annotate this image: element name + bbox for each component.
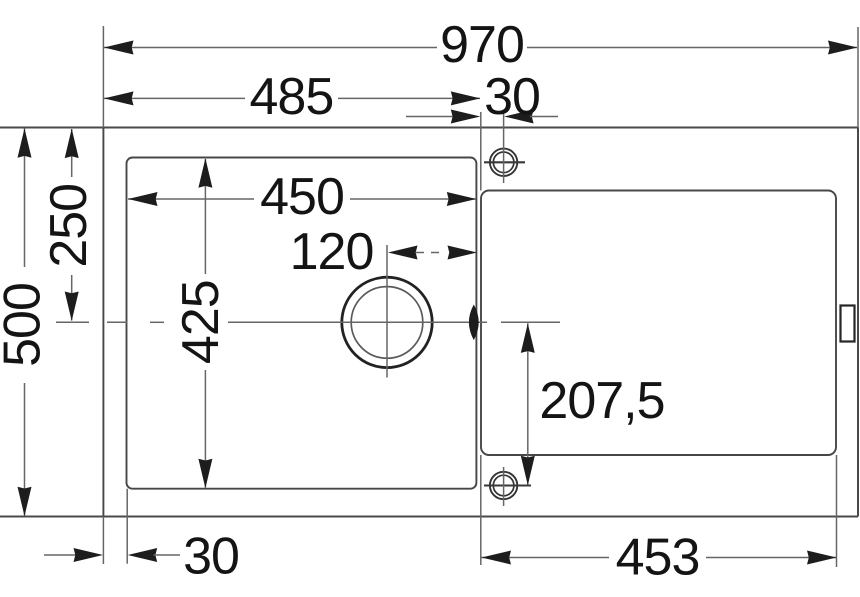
svg-text:425: 425 [172, 280, 230, 364]
top tap hole outer circle [490, 149, 517, 176]
dimension 30 top left arrow (pointing right) [451, 110, 481, 124]
dimension 485 line [104, 97, 245, 99]
bottom tap hole horizontal crosshair [484, 484, 531, 486]
sink outer bottom edge [0, 516, 858, 518]
bottom tap hole outer circle [490, 472, 517, 499]
sink outer top edge [0, 127, 858, 129]
dimension 30 top tail left [406, 116, 456, 118]
dimension 970 line [104, 47, 437, 49]
extension line above left edge [102, 26, 104, 128]
dimension 450 right arrow [447, 192, 477, 206]
dimension 207,5 bottom arrow [521, 456, 535, 486]
svg-text:450: 450 [260, 168, 344, 226]
dimension 120 dashed tail [416, 252, 424, 254]
drain vertical center line [386, 245, 388, 378]
dimension 500 top arrow [18, 128, 32, 158]
dimension 207,5 line [527, 323, 529, 485]
extension line below bowl left edge [126, 489, 128, 564]
dimension 120 right arrow (pointing right) [448, 246, 478, 260]
dimension 450 left arrow [128, 192, 158, 206]
dimension 425 top arrow [198, 158, 212, 188]
extension line above right edge [857, 27, 859, 128]
drain outer circle [342, 277, 432, 367]
svg-text:250: 250 [40, 184, 98, 268]
dimension 30 bottom tail left [44, 554, 79, 556]
svg-text:30: 30 [183, 528, 239, 586]
dimension 500 bottom arrow [18, 487, 32, 517]
dimension 30 bottom right arrow (pointing left) [128, 548, 158, 562]
top tap hole vertical crosshair / extension [503, 113, 505, 183]
dimension 30 bottom left arrow (pointing right) [74, 548, 104, 562]
center line lens mark on bowl right edge [469, 305, 479, 341]
svg-text:207,5: 207,5 [539, 372, 664, 430]
bottom tap hole inner circle [493, 475, 514, 496]
dimension 970 left arrow [104, 41, 134, 55]
svg-text:500: 500 [0, 283, 52, 367]
dimension 250 line [71, 129, 73, 177]
extension line below drainboard right edge [836, 455, 838, 567]
horizontal center line segments [56, 321, 89, 323]
dimension 30 bottom tail right [154, 554, 181, 556]
sink outer right edge [857, 128, 859, 517]
extension line below left edge [102, 517, 104, 565]
top tap hole horizontal crosshair [484, 161, 525, 163]
bowl rounded rectangle [127, 158, 477, 489]
dimension 425 bottom arrow [198, 459, 212, 489]
svg-text:30: 30 [484, 68, 540, 126]
top tap hole inner circle [493, 152, 514, 173]
dimension 207,5 top arrow [521, 323, 535, 353]
dimension 500 line [24, 128, 26, 267]
extension line between bowl and drainboard bottom [480, 455, 482, 565]
dimension 30 top right arrow (pointing left) [504, 110, 533, 124]
dimension 30 top tail right [530, 116, 558, 118]
extension line between bowl and drainboard top [480, 112, 482, 191]
svg-text:485: 485 [250, 68, 334, 126]
drain inner circle [351, 287, 423, 359]
dimension 450 line [128, 198, 254, 200]
svg-text:970: 970 [440, 16, 524, 74]
svg-text:453: 453 [616, 529, 700, 587]
overflow notch rectangle [841, 306, 855, 342]
sink outer left edge [102, 128, 104, 517]
dimension 250 bottom arrow [65, 292, 79, 322]
dimension 120 left arrow (pointing left) [388, 246, 418, 260]
dimension 425 line [204, 159, 206, 274]
dimension 453 line [482, 557, 610, 559]
dimension 485 left arrow [104, 91, 134, 105]
dimension 485 right arrow [451, 91, 481, 105]
dimension 970 right arrow [828, 41, 858, 55]
bottom tap hole vertical crosshair [503, 467, 505, 506]
svg-text:120: 120 [290, 223, 374, 281]
dimension 453 right arrow [807, 551, 837, 565]
drainboard rounded rectangle [481, 191, 836, 456]
dimension 250 top arrow [65, 129, 79, 159]
dimension 453 left arrow [482, 551, 512, 565]
